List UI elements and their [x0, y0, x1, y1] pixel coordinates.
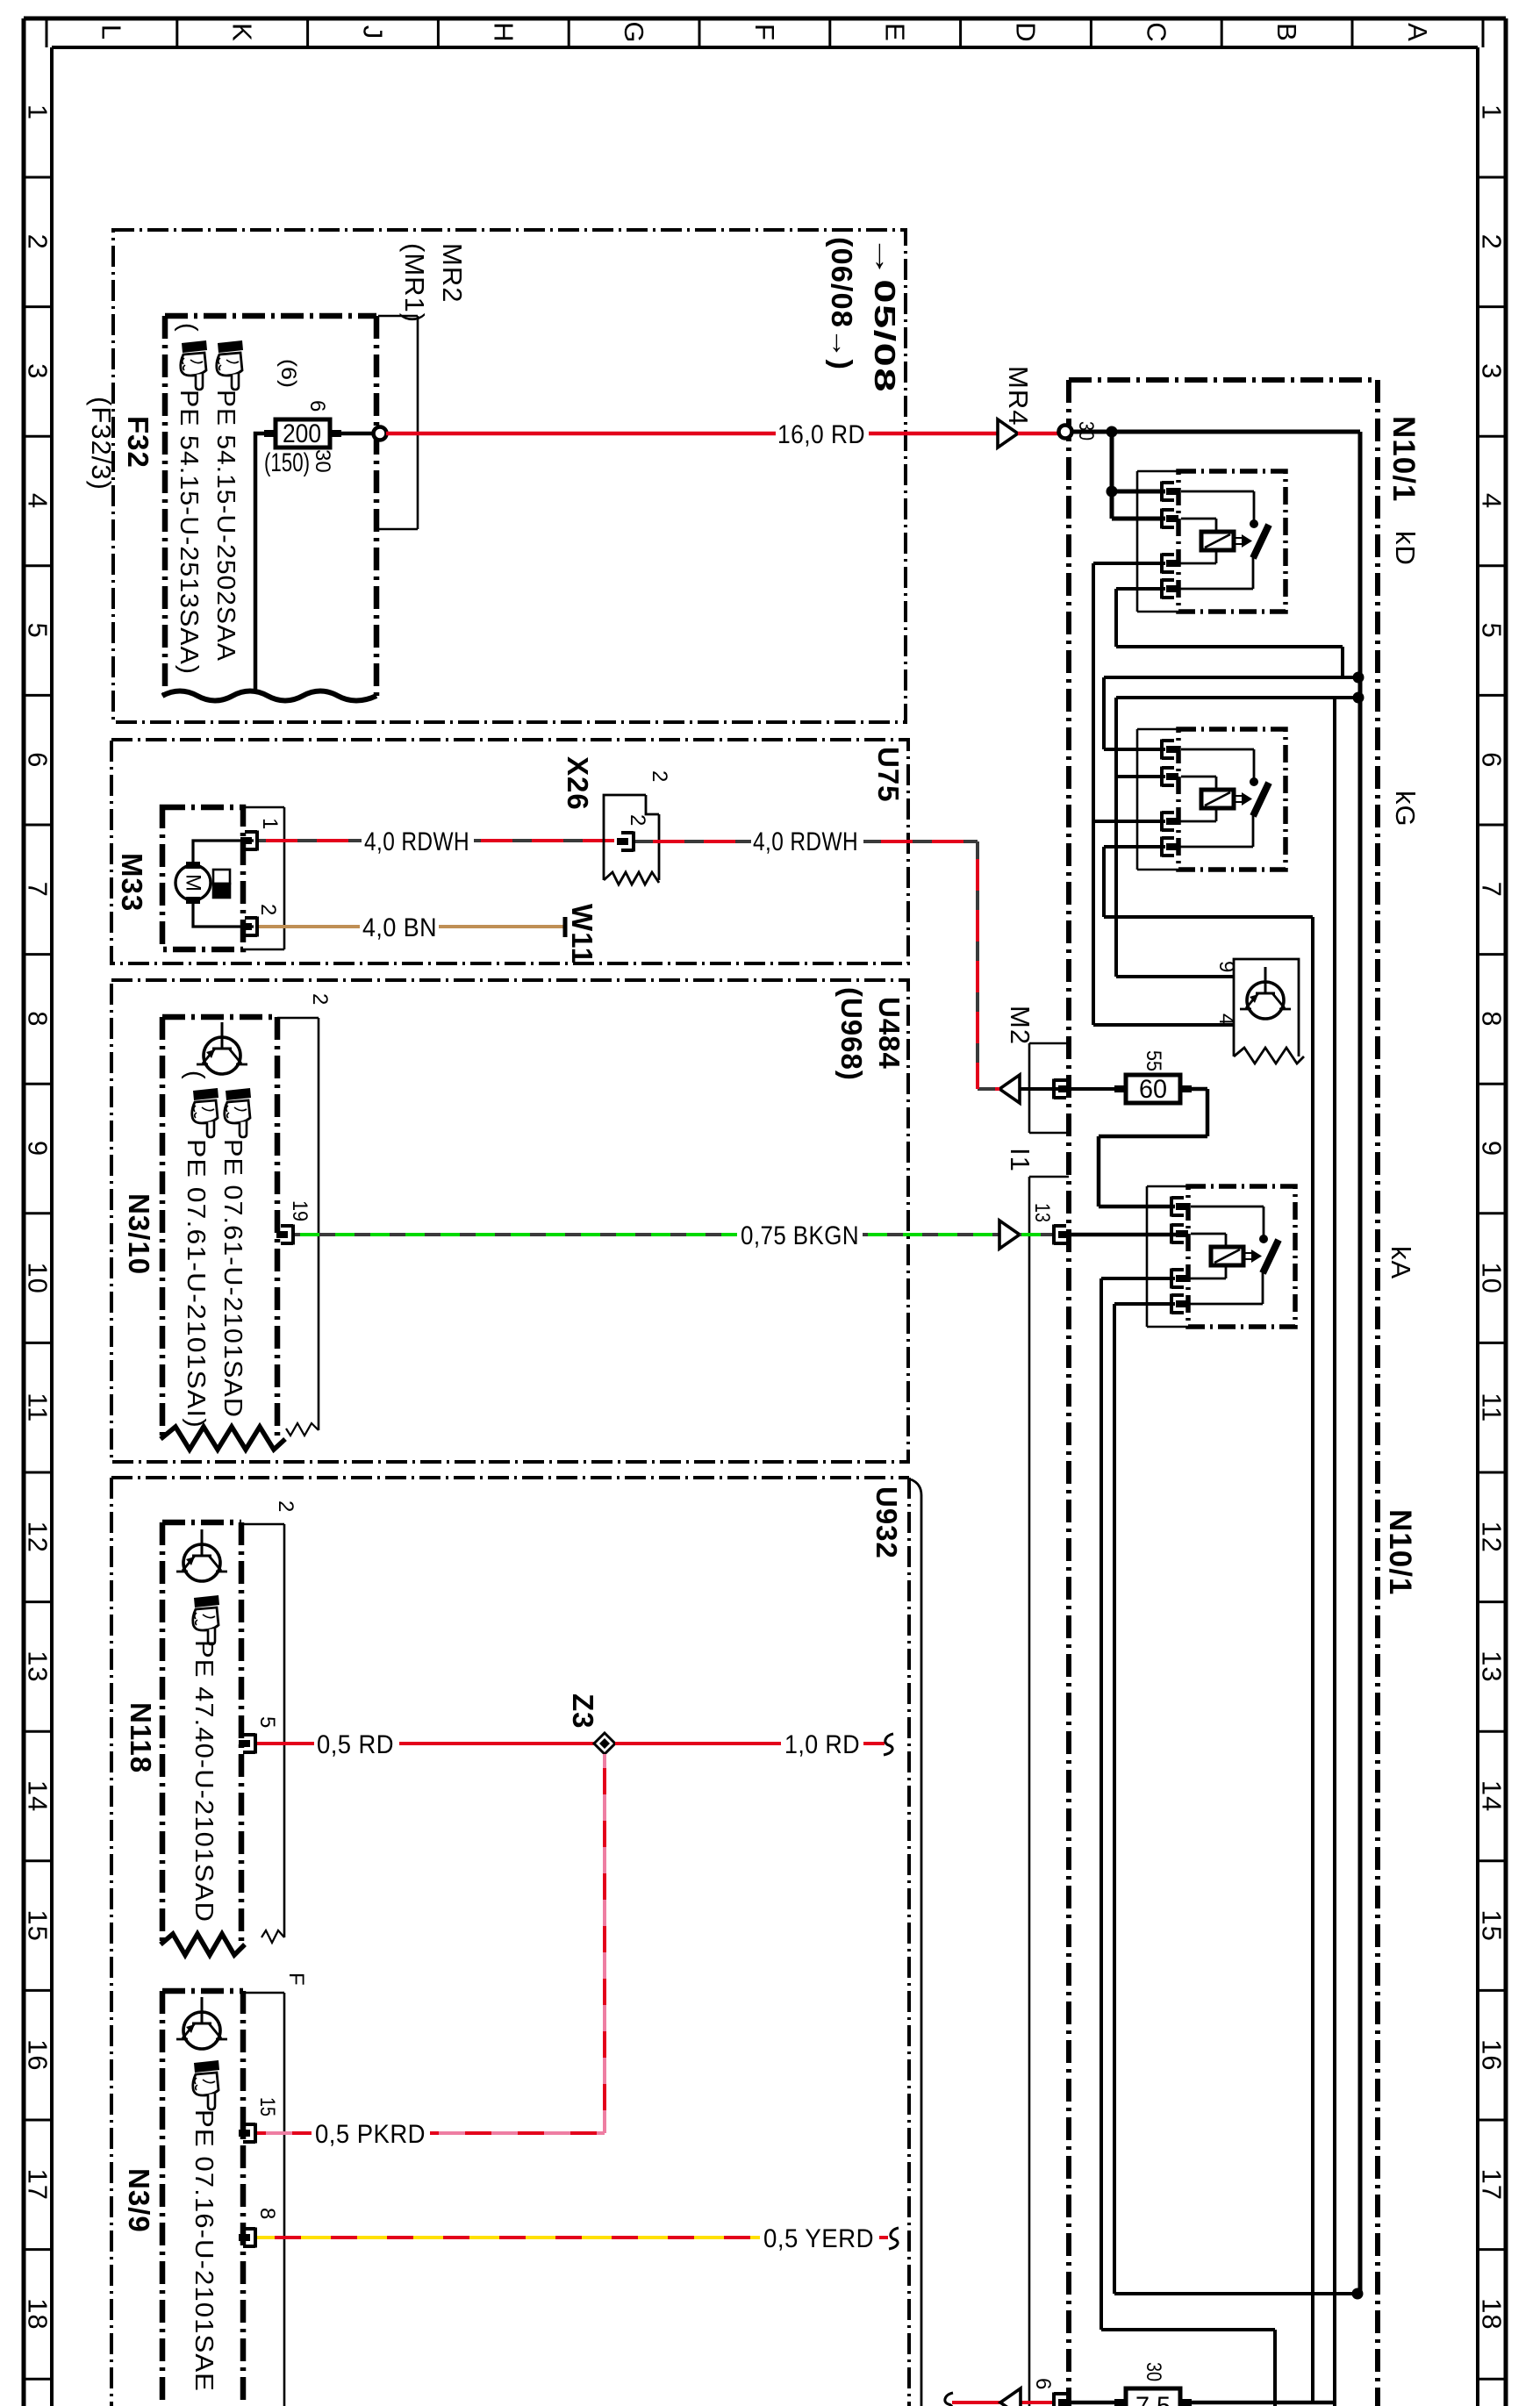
wire kG pin4 chain — [1104, 847, 1313, 2402]
svg-text:10: 10 — [1477, 1262, 1508, 1293]
svg-text:(F32/3): (F32/3) — [86, 397, 117, 491]
module box U932 — [111, 1478, 909, 2406]
svg-text:4: 4 — [1477, 493, 1508, 509]
svg-text:B: B — [1271, 23, 1302, 42]
svg-text:17: 17 — [1477, 2169, 1508, 2201]
right number cell dividers — [1478, 177, 1506, 2379]
svg-text:13: 13 — [1477, 1651, 1508, 1682]
connector I1 bracket — [1029, 1177, 1069, 2406]
svg-text:(06/08→): (06/08→) — [826, 237, 858, 370]
svg-text:55: 55 — [1142, 1050, 1165, 1071]
wire 0,5 RD — [257, 1742, 595, 1745]
wire red stub — [879, 2236, 888, 2239]
top letter cell dividers — [47, 18, 1483, 47]
svg-text:N10/1: N10/1 — [1386, 416, 1421, 502]
svg-text:8: 8 — [1477, 1011, 1508, 1027]
relay kA — [1147, 1186, 1295, 1327]
junction dot 2614 — [1352, 2288, 1364, 2300]
svg-text:PE 07.61-U-2101SAD: PE 07.61-U-2101SAD — [218, 1139, 247, 1418]
svg-text:(U968): (U968) — [835, 987, 868, 1081]
wire kD pin4 chain — [1104, 589, 1360, 749]
svg-text:E: E — [880, 23, 911, 42]
svg-text:13: 13 — [1030, 1203, 1054, 1222]
pin 1 — [240, 831, 257, 851]
N3/9 connector bracket — [243, 1993, 284, 2406]
svg-text:5: 5 — [1477, 622, 1508, 638]
footnote hand 2 — [217, 340, 243, 390]
svg-text:L: L — [97, 25, 127, 40]
svg-text:4,0 RDWH: 4,0 RDWH — [753, 827, 858, 856]
lamp symbol — [197, 1022, 247, 1074]
wire fuse60 to kA pin1 — [1099, 1089, 1207, 1207]
svg-text:6: 6 — [23, 752, 54, 768]
svg-text:5: 5 — [23, 622, 54, 638]
MR2 connector bracket — [378, 316, 418, 529]
wire 1,0 RD — [615, 1742, 885, 1745]
svg-text:F: F — [284, 1973, 308, 1986]
footnote hand 2 — [192, 1088, 218, 1137]
fuse 7,5 — [1114, 2388, 1192, 2406]
footnote hand — [193, 1595, 219, 1644]
svg-text:15: 15 — [23, 1909, 54, 1941]
wire kD pin3 chain — [1093, 563, 1234, 1025]
svg-text:12: 12 — [1477, 1522, 1508, 1553]
svg-text:2: 2 — [256, 904, 280, 915]
svg-text:4,0 RDWH: 4,0 RDWH — [364, 827, 469, 856]
circuit breaker 9/4 — [1234, 959, 1299, 1056]
svg-text:PE 54.15-U-2502SAA: PE 54.15-U-2502SAA — [211, 390, 240, 662]
control unit N3/10 box — [162, 1017, 277, 1439]
svg-text:(: ( — [181, 1071, 209, 1080]
svg-text:60: 60 — [1139, 1075, 1167, 1104]
svg-text:W11: W11 — [566, 904, 598, 964]
svg-text:30: 30 — [1142, 2362, 1165, 2381]
wire rail 795 to kG pin2 and 9/4 — [1116, 698, 1360, 977]
lamp symbol — [176, 1529, 227, 1581]
wire red arrow to N10/1 — [1018, 432, 1059, 436]
bracket torn end — [286, 1423, 319, 1436]
svg-text:13: 13 — [23, 1651, 54, 1682]
torn bottom N118 — [161, 1934, 245, 1955]
svg-text:30: 30 — [311, 449, 334, 473]
svg-text:U932: U932 — [870, 1486, 903, 1559]
svg-text:9: 9 — [1214, 961, 1238, 972]
svg-text:9: 9 — [1477, 1141, 1508, 1156]
svg-text:16: 16 — [23, 2039, 54, 2071]
pump motor M33 box — [162, 807, 243, 949]
svg-text:2: 2 — [308, 993, 332, 1005]
pin bracket 6 — [1054, 2393, 1071, 2406]
svg-text:N10/1: N10/1 — [1383, 1509, 1417, 1595]
arrow M2 (points left) — [999, 1075, 1020, 1103]
junction dot rail 772 — [1353, 672, 1365, 684]
pin 2 — [240, 917, 257, 937]
motor wires — [193, 841, 254, 927]
svg-text:6: 6 — [1031, 2378, 1055, 2389]
splice Z3 — [594, 1733, 615, 1754]
svg-text:→05/08: →05/08 — [869, 235, 901, 393]
svg-text:200: 200 — [283, 419, 321, 448]
off-page arrow MR4 — [998, 419, 1018, 448]
svg-text:5: 5 — [255, 1716, 279, 1728]
svg-text:7: 7 — [1477, 882, 1508, 898]
motor symbol M — [175, 865, 211, 900]
control unit N118 box — [162, 1522, 241, 1944]
svg-text:N118: N118 — [125, 1702, 157, 1773]
svg-text:F32: F32 — [122, 416, 154, 469]
M33 connector bracket — [243, 807, 284, 949]
svg-text:0,5 YERD: 0,5 YERD — [763, 2224, 874, 2253]
svg-text:kD: kD — [1390, 531, 1421, 566]
svg-text:2: 2 — [274, 1500, 297, 1512]
svg-text:3: 3 — [23, 363, 54, 379]
footnote hand — [193, 2060, 219, 2109]
svg-text:PE 54.15-U-2513SAA): PE 54.15-U-2513SAA) — [175, 390, 203, 675]
wire from fuse to module interior — [255, 433, 276, 693]
junction dot rail 795 — [1353, 692, 1365, 704]
svg-text:4: 4 — [23, 493, 54, 509]
wire M2 to fuse — [1020, 1087, 1114, 1091]
svg-text:N3/9: N3/9 — [123, 2168, 155, 2233]
wire fuse7,5 out — [1192, 2401, 1335, 2405]
svg-text:PE 07.16-U-2101SAE: PE 07.16-U-2101SAE — [190, 2109, 218, 2392]
svg-text:PE 47.40-U-2101SAD: PE 47.40-U-2101SAD — [190, 1640, 218, 1923]
svg-text:4,0 BN: 4,0 BN — [362, 913, 437, 942]
lamp symbol — [176, 1997, 227, 2049]
harness outline with rounded corner — [911, 1479, 921, 2406]
svg-text:M: M — [182, 874, 205, 892]
svg-text:14: 14 — [1477, 1780, 1508, 1812]
relay kD — [1137, 471, 1286, 612]
wire 0,5 PKRD — [257, 2131, 605, 2135]
left number cell dividers — [24, 177, 52, 2379]
svg-text:1: 1 — [1477, 104, 1508, 120]
svg-text:X26: X26 — [562, 756, 594, 811]
svg-text:MR2: MR2 — [437, 243, 468, 303]
module box 05/08 (06/08) — [113, 230, 906, 722]
svg-text:Z3: Z3 — [567, 1694, 599, 1729]
svg-text:J: J — [358, 25, 389, 40]
svg-text:PE 07.61-U-2101SAI): PE 07.61-U-2101SAI) — [182, 1139, 210, 1429]
pin bracket 13 — [1054, 1225, 1071, 1245]
long rail 1521 — [1333, 698, 1336, 2406]
fuse 200 — [264, 419, 341, 448]
svg-text:(6): (6) — [276, 359, 300, 388]
control unit N3/9 box — [162, 1991, 243, 2406]
wire 16,0 RD (red) — [386, 432, 998, 436]
wire pin13 to kA pin2 — [1065, 1233, 1181, 1237]
svg-text:I1: I1 — [1005, 1148, 1035, 1172]
wire kA pin3 chain — [1101, 1278, 1275, 2406]
wire break squiggle — [884, 1734, 893, 1755]
wire to fuse 7,5 — [1065, 2401, 1114, 2405]
wire break squiggle — [889, 2228, 899, 2249]
svg-text:M33: M33 — [116, 853, 148, 912]
svg-text:C: C — [1141, 22, 1171, 42]
X26 pin bracket — [617, 832, 634, 852]
svg-text:1: 1 — [258, 818, 282, 829]
bottom red wire squiggle — [943, 2393, 953, 2406]
bottom wire 6 (red) — [952, 2401, 1054, 2404]
svg-text:17: 17 — [23, 2169, 54, 2201]
svg-text:18: 18 — [23, 2298, 54, 2330]
pin 8 — [239, 2228, 255, 2248]
svg-text:18: 18 — [1477, 2298, 1508, 2330]
svg-text:14: 14 — [23, 1780, 54, 1812]
arrow 6 (points left) — [1000, 2388, 1021, 2406]
svg-text:U75: U75 — [872, 747, 905, 803]
svg-text:0,75 BKGN: 0,75 BKGN — [741, 1221, 859, 1250]
svg-text:11: 11 — [1477, 1393, 1508, 1422]
N118 connector bracket — [241, 1524, 284, 1937]
arrow 13 (points right) — [999, 1221, 1020, 1249]
svg-text:7: 7 — [22, 882, 53, 898]
wire kA pin4 chain — [1114, 1304, 1357, 2294]
footnote hand 1 — [225, 1088, 251, 1137]
junction dot — [1107, 426, 1118, 438]
module box U484 (U968) — [111, 980, 908, 1462]
svg-text:1,0 RD: 1,0 RD — [784, 1730, 860, 1759]
wire 4,0 RDWH (M33 to X26) — [259, 839, 614, 842]
fuse box F32 — [165, 316, 376, 696]
svg-text:U484: U484 — [873, 997, 906, 1070]
indicator bar — [213, 870, 230, 884]
svg-text:0,5 PKRD: 0,5 PKRD — [315, 2120, 426, 2149]
connector M2 bracket — [1029, 1043, 1069, 1133]
svg-text:M2: M2 — [1005, 1006, 1035, 1045]
fuse 60 — [1114, 1075, 1192, 1103]
svg-text:G: G — [619, 21, 649, 43]
wire 4,0 BN — [259, 925, 563, 928]
svg-text:8: 8 — [23, 1011, 54, 1027]
svg-text:(MR1): (MR1) — [399, 243, 430, 323]
svg-text:K: K — [227, 23, 258, 42]
svg-text:0,5 RD: 0,5 RD — [317, 1730, 394, 1759]
svg-text:11: 11 — [23, 1393, 54, 1422]
terminal 30 circle — [1059, 426, 1072, 439]
svg-text:2: 2 — [626, 814, 649, 826]
svg-text:2: 2 — [648, 770, 671, 782]
wire 0,75 BKGN — [295, 1233, 999, 1236]
pin 5 — [239, 1734, 255, 1754]
svg-text:15: 15 — [1477, 1909, 1508, 1941]
wire kD pin1/2 feed — [1112, 432, 1165, 519]
ground terminal W11 — [563, 917, 568, 937]
terminal circle at F32 border — [374, 427, 387, 440]
svg-text:kA: kA — [1386, 1246, 1416, 1279]
svg-text:1: 1 — [23, 104, 54, 120]
green wire to pin bracket — [1020, 1233, 1056, 1236]
svg-text:A: A — [1402, 23, 1433, 42]
pin 15 — [239, 2123, 255, 2144]
svg-text:12: 12 — [23, 1522, 54, 1553]
wire 0,5 PKRD vertical from Z3 — [603, 1754, 606, 2133]
svg-text:2: 2 — [23, 234, 54, 250]
red wire tip at M2 arrow — [996, 1087, 999, 1091]
wire 4,0 RDWH (X26 to N10/1) — [635, 841, 1005, 1089]
svg-text:D: D — [1011, 22, 1042, 42]
torn bottom edge of F32 — [162, 691, 376, 701]
svg-text:2: 2 — [1477, 234, 1508, 250]
svg-text:(: ( — [174, 323, 202, 333]
svg-text:4: 4 — [1214, 1013, 1238, 1025]
svg-text:MR4: MR4 — [1003, 366, 1034, 426]
svg-text:9: 9 — [23, 1141, 54, 1156]
relay module box N10/1 — [1069, 380, 1378, 2406]
pin 19 — [276, 1225, 293, 1245]
wire 0,5 YERD — [257, 2236, 760, 2239]
junction dot — [1107, 486, 1118, 498]
pin bracket M2 — [1054, 1079, 1071, 1099]
relay kG — [1137, 729, 1286, 870]
footnote hand 1 — [181, 340, 207, 390]
svg-text:H: H — [489, 22, 519, 42]
svg-text:15: 15 — [255, 2097, 279, 2116]
svg-text:16,0 RD: 16,0 RD — [777, 420, 865, 449]
svg-text:8: 8 — [255, 2208, 279, 2219]
svg-text:kG: kG — [1390, 791, 1421, 827]
svg-text:3: 3 — [1477, 363, 1508, 379]
svg-text:(150): (150) — [264, 448, 310, 477]
module box U75 — [111, 740, 908, 963]
bracket torn end — [261, 1930, 284, 1943]
connector X26 — [604, 795, 659, 880]
svg-text:6: 6 — [305, 400, 329, 412]
svg-text:10: 10 — [23, 1262, 54, 1293]
svg-text:F: F — [749, 24, 780, 41]
wire fuse to terminal — [331, 432, 375, 436]
svg-text:6: 6 — [1477, 752, 1508, 768]
wire 30 rail — [1071, 432, 1360, 2294]
svg-text:7,5: 7,5 — [1135, 2392, 1171, 2406]
svg-text:16: 16 — [1477, 2039, 1508, 2071]
svg-text:19: 19 — [288, 1200, 312, 1221]
torn bottom N3/10 — [161, 1427, 285, 1450]
svg-text:N3/10: N3/10 — [123, 1193, 155, 1275]
N3/10 connector bracket — [277, 1018, 319, 1430]
